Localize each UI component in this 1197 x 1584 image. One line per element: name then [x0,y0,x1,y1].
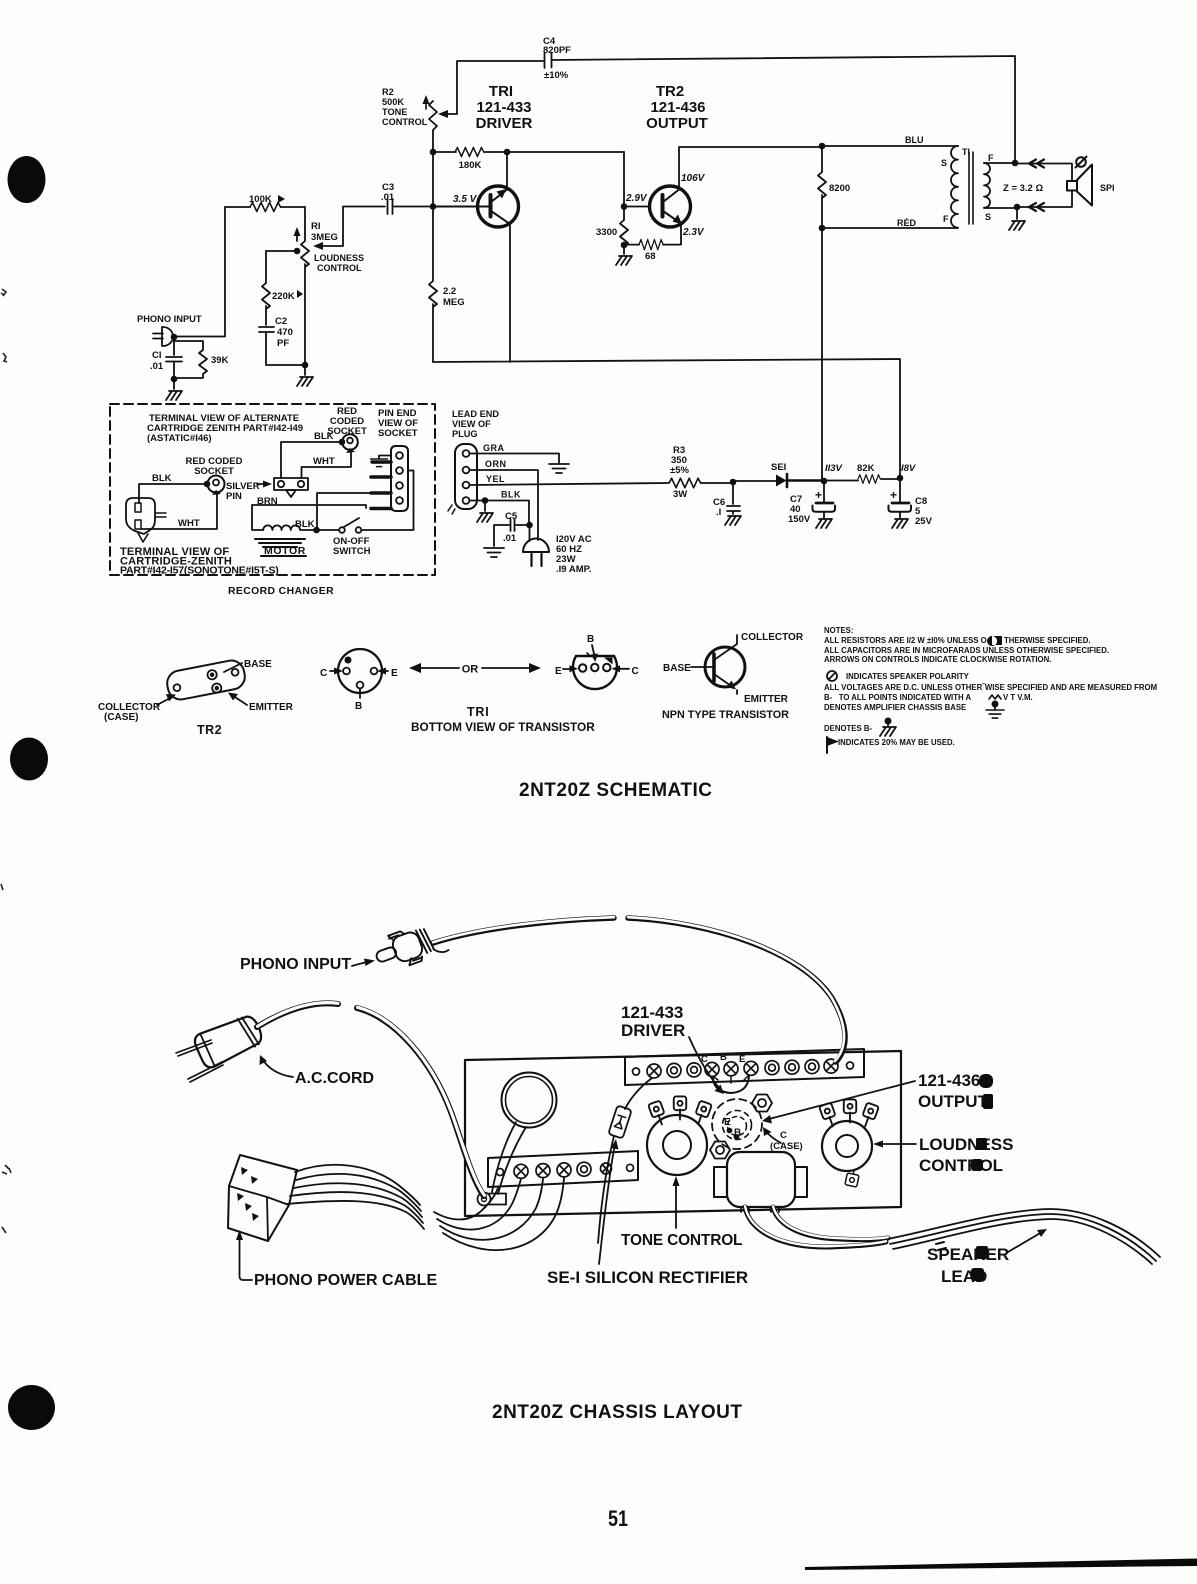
svg-text:B: B [734,1128,741,1139]
svg-text:BASE: BASE [663,663,691,674]
svg-text:Z = 3.2 Ω: Z = 3.2 Ω [1003,183,1043,194]
svg-text:MEG: MEG [443,297,465,308]
svg-text:PLUG: PLUG [452,429,478,439]
svg-text:121-436: 121-436 [918,1071,980,1090]
svg-text:2.3V: 2.3V [682,227,705,238]
svg-text:B: B [355,701,362,712]
svg-text:THERWISE SPECIFIED.: THERWISE SPECIFIED. [1004,636,1091,645]
svg-text:DRIVER: DRIVER [621,1021,685,1040]
svg-text:SPI: SPI [1100,183,1115,193]
svg-text:121-436: 121-436 [650,99,705,116]
svg-text:PHONO INPUT: PHONO INPUT [137,314,202,324]
svg-text:CONTROL: CONTROL [919,1156,1003,1175]
svg-text:F: F [943,214,949,224]
svg-text:TONE CONTROL: TONE CONTROL [621,1232,742,1249]
svg-text:820PF: 820PF [543,45,571,56]
svg-text:INDICATES SPEAKER POLARITY: INDICATES SPEAKER POLARITY [846,672,970,681]
svg-text:3300: 3300 [596,227,617,238]
svg-text:BLK: BLK [314,431,334,442]
svg-text:(CASE): (CASE) [770,1141,803,1152]
svg-text:DENOTES AMPLIFIER CHASSIS BASE: DENOTES AMPLIFIER CHASSIS BASE [824,703,966,712]
svg-text:DRIVER: DRIVER [476,115,533,132]
svg-text:SPEAKER: SPEAKER [927,1245,1009,1264]
svg-text:.01: .01 [503,533,517,544]
svg-text:TR2: TR2 [656,83,684,100]
svg-text:BASE: BASE [244,659,272,670]
svg-text:INDICATES 20% MAY BE USED.: INDICATES 20% MAY BE USED. [838,738,955,747]
svg-text:39K: 39K [211,355,229,366]
svg-text:C5: C5 [505,511,518,522]
svg-text:(CASE): (CASE) [104,712,138,723]
svg-text:.01: .01 [150,361,164,372]
svg-text:±10%: ±10% [544,70,569,81]
svg-text:(ASTATIC#I46): (ASTATIC#I46) [147,433,212,444]
svg-text:C: C [320,668,327,679]
svg-text:TRI: TRI [467,705,490,719]
svg-text:OUTPUT: OUTPUT [918,1092,989,1111]
svg-text:F: F [988,153,994,163]
svg-text:C2: C2 [275,316,287,327]
svg-text:BLK: BLK [501,490,521,500]
svg-text:2.2: 2.2 [443,286,456,297]
svg-text:3W: 3W [673,489,687,500]
svg-text:I8V: I8V [901,463,916,474]
svg-text:BRN: BRN [257,496,278,507]
svg-text:B: B [720,1052,727,1063]
svg-text:YEL: YEL [486,474,505,484]
svg-text:S: S [985,212,991,222]
svg-text:E: E [391,668,398,679]
svg-text:3MEG: 3MEG [311,232,338,243]
svg-text:500K: 500K [382,97,404,107]
svg-text:OUTPUT: OUTPUT [646,115,708,132]
svg-text:GRA: GRA [483,443,505,453]
svg-text:51: 51 [608,1507,628,1531]
svg-text:A.C.CORD: A.C.CORD [295,1070,374,1087]
svg-text:OR: OR [462,664,479,676]
svg-text:PHONO INPUT: PHONO INPUT [240,956,351,973]
svg-text:WHT: WHT [178,518,200,529]
svg-text:TR2: TR2 [197,723,222,737]
svg-text:C: C [701,1054,708,1065]
svg-text:3.5 V: 3.5 V [453,194,478,205]
svg-text:PIN: PIN [226,491,242,502]
svg-text:E: E [724,1117,731,1128]
svg-text:82K: 82K [857,463,875,474]
svg-text:TRI: TRI [489,83,513,100]
svg-text:+: + [815,488,822,502]
svg-text:SEI: SEI [771,462,786,473]
svg-text:S: S [941,158,947,168]
svg-text:SWITCH: SWITCH [333,546,371,557]
svg-text:150V: 150V [788,514,811,525]
svg-text:2NT20Z SCHEMATIC: 2NT20Z SCHEMATIC [519,780,712,801]
svg-text:TONE: TONE [382,107,407,117]
svg-text:8200: 8200 [829,183,850,194]
svg-text:ALL VOLTAGES ARE D.C. UNLESS O: ALL VOLTAGES ARE D.C. UNLESS OTHER‾WISE … [824,683,1157,692]
svg-text:C: C [780,1130,787,1141]
svg-text:121-433: 121-433 [621,1003,683,1022]
svg-text:.I9 AMP.: .I9 AMP. [556,564,591,575]
svg-text:BOTTOM VIEW OF TRANSISTOR: BOTTOM VIEW OF TRANSISTOR [411,720,595,734]
svg-text:EMITTER: EMITTER [249,702,294,713]
svg-text:C: C [632,666,639,677]
svg-text:R2: R2 [382,87,394,97]
svg-text:LOUDNESS: LOUDNESS [314,253,364,263]
svg-text:RĖD: RĖD [897,218,917,228]
svg-text:220K: 220K [272,291,295,302]
svg-text:V T V.M.: V T V.M. [1003,693,1033,702]
svg-text:106V: 106V [681,173,706,184]
svg-text:470: 470 [277,327,293,338]
svg-text:TI: TI [962,147,970,157]
svg-text:2.9V: 2.9V [625,193,648,204]
svg-text:SOCKET: SOCKET [194,466,234,477]
svg-text:RECORD CHANGER: RECORD CHANGER [228,586,334,597]
svg-text:BLU: BLU [905,135,924,145]
svg-text:RI: RI [311,221,321,232]
svg-text:BLK: BLK [152,473,172,484]
svg-text:CI: CI [152,350,162,361]
svg-text:VIEW OF: VIEW OF [452,419,491,429]
svg-text:LEAD END: LEAD END [452,409,499,419]
svg-text:BLK: BLK [295,519,315,530]
svg-text:MOTOR: MOTOR [264,545,306,557]
svg-text:E: E [555,666,562,677]
svg-text:25V: 25V [915,516,933,527]
svg-text:COLLECTOR: COLLECTOR [741,632,804,643]
svg-text:68: 68 [645,251,656,262]
svg-text:DENOTES B-: DENOTES B- [824,724,872,733]
svg-text:.01: .01 [381,192,395,203]
svg-text:PART#I42-I57(SONOTONE#I5T-S): PART#I42-I57(SONOTONE#I5T-S) [120,565,279,577]
svg-text:B: B [587,634,594,645]
svg-text:180K: 180K [459,160,482,171]
svg-text:CONTROL: CONTROL [382,117,428,127]
svg-text:ALL RESISTORS ARE I/2 W ±I0% U: ALL RESISTORS ARE I/2 W ±I0% UNLESS O [824,636,987,645]
svg-text:+: + [890,488,897,502]
svg-text:B- TO ALL POINTS INDICATED W: B- TO ALL POINTS INDICATED WITH A [824,693,971,702]
svg-text:ALL CAPACITORS ARE IN MICROFAR: ALL CAPACITORS ARE IN MICROFARADS UNLESS… [824,646,1109,655]
svg-text:ORN: ORN [485,459,507,469]
svg-text:CONTROL: CONTROL [317,263,362,273]
svg-text:PHONO POWER CABLE: PHONO POWER CABLE [254,1272,437,1289]
svg-text:EMITTER: EMITTER [744,694,789,705]
svg-text:100K: 100K [249,194,272,205]
svg-text:.I: .I [716,507,721,518]
svg-text:ARROWS ON CONTROLS INDICATE CL: ARROWS ON CONTROLS INDICATE CLOCKWISE RO… [824,655,1051,664]
svg-text:WHT: WHT [313,456,335,467]
svg-text:II3V: II3V [825,463,843,474]
svg-text:PF: PF [277,338,289,349]
svg-text:LOUDNESS: LOUDNESS [919,1135,1013,1154]
svg-text:121-433: 121-433 [476,99,531,116]
svg-text:±5%: ±5% [670,465,689,476]
svg-text:NPN TYPE TRANSISTOR: NPN TYPE TRANSISTOR [662,709,789,721]
svg-text:E: E [739,1054,745,1065]
svg-text:SE-I SILICON RECTIFIER: SE-I SILICON RECTIFIER [547,1268,748,1287]
svg-text:2NT20Z CHASSIS LAYOUT: 2NT20Z CHASSIS LAYOUT [492,1402,743,1423]
svg-text:NOTES:: NOTES: [824,626,853,635]
svg-text:SOCKET: SOCKET [378,428,418,439]
